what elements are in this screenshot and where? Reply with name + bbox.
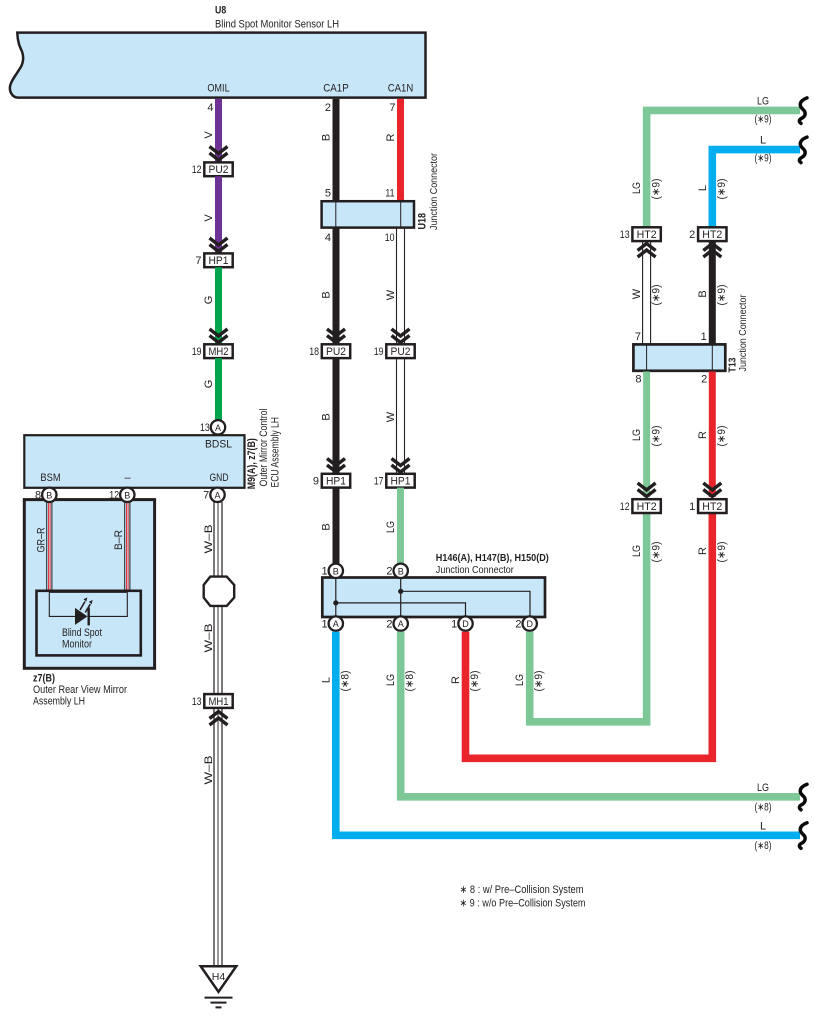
svg-text:19: 19 bbox=[192, 346, 202, 358]
pin 8 B of ECU bbox=[42, 488, 56, 502]
svg-text:LG: LG bbox=[631, 429, 643, 441]
arrow on wire B bbox=[327, 465, 345, 472]
svg-text:4: 4 bbox=[207, 102, 213, 114]
svg-text:L: L bbox=[697, 185, 709, 191]
svg-text:LG: LG bbox=[757, 96, 769, 108]
block z7 Outer Rear View Mirror Assembly LH bbox=[24, 500, 154, 669]
svg-text:BDSL: BDSL bbox=[205, 439, 232, 451]
svg-text:A: A bbox=[398, 619, 404, 629]
svg-text:R: R bbox=[697, 547, 709, 555]
svg-text:A: A bbox=[215, 423, 221, 433]
svg-text:(∗9): (∗9) bbox=[469, 671, 481, 692]
svg-text:18: 18 bbox=[309, 346, 319, 358]
svg-text:B: B bbox=[321, 413, 333, 420]
wire LG from pin 2 A to right edge bbox=[401, 632, 800, 797]
svg-text:OMIL: OMIL bbox=[207, 83, 229, 95]
pin 2 A of H146 bbox=[394, 616, 408, 630]
connector 17 HP1 bbox=[386, 474, 414, 488]
wire W-B from octagon to MH1 bbox=[214, 606, 222, 695]
svg-text:(∗9): (∗9) bbox=[650, 179, 662, 200]
connector 18 PU2 bbox=[322, 344, 350, 358]
svg-text:Assembly LH: Assembly LH bbox=[33, 695, 85, 707]
wire B from PU2 to HP1 bbox=[333, 358, 340, 474]
wire LG from HP1 to junction pin 2 B bbox=[397, 488, 404, 564]
svg-text:W–B: W–B bbox=[203, 624, 215, 653]
svg-text:(∗8): (∗8) bbox=[339, 671, 351, 692]
svg-text:CA1P: CA1P bbox=[323, 83, 349, 95]
svg-text:GR–R: GR–R bbox=[35, 527, 47, 552]
svg-text:R: R bbox=[697, 431, 709, 439]
svg-text:R: R bbox=[450, 676, 462, 684]
svg-text:(∗9): (∗9) bbox=[650, 426, 662, 447]
wire LG from T13 to 12 HT2 bbox=[643, 372, 650, 498]
block U8 Blind Spot Monitor Sensor LH bbox=[10, 33, 426, 98]
page continuation curl LG bbox=[799, 784, 807, 810]
svg-text:D: D bbox=[462, 619, 469, 629]
svg-text:7: 7 bbox=[389, 102, 395, 114]
internal wire to LED bbox=[49, 592, 127, 616]
svg-text:z7(B): z7(B) bbox=[33, 673, 55, 685]
wire W from PU2 to HP1 bbox=[397, 358, 405, 474]
svg-text:7: 7 bbox=[203, 490, 209, 502]
svg-text:A: A bbox=[214, 490, 220, 500]
arrow on wire W bbox=[392, 465, 410, 472]
svg-text:7: 7 bbox=[635, 331, 641, 343]
svg-text:W–B: W–B bbox=[203, 525, 215, 554]
svg-text:(∗9): (∗9) bbox=[650, 542, 662, 563]
svg-text:Junction Connector: Junction Connector bbox=[737, 294, 749, 371]
pin 2 B of H146 bbox=[394, 564, 408, 578]
svg-text:7: 7 bbox=[195, 255, 201, 267]
svg-text:(∗9): (∗9) bbox=[716, 542, 728, 563]
wire R from T13 to 1 HT2 bbox=[709, 372, 716, 498]
svg-text:10: 10 bbox=[385, 232, 395, 244]
arrow on wire G bbox=[210, 336, 228, 343]
connector 9 HP1 bbox=[322, 474, 350, 488]
svg-text:9: 9 bbox=[313, 476, 319, 488]
svg-text:(∗8): (∗8) bbox=[755, 840, 772, 852]
svg-text:1: 1 bbox=[321, 618, 327, 630]
arrow on wire R bbox=[703, 490, 721, 497]
svg-text:G: G bbox=[203, 296, 215, 305]
svg-text:B: B bbox=[697, 290, 709, 297]
svg-text:Junction Connector: Junction Connector bbox=[428, 153, 440, 230]
arrow on wire B bbox=[703, 244, 721, 251]
svg-text:(∗8): (∗8) bbox=[755, 802, 772, 814]
connector 1 HT2 bbox=[698, 499, 726, 513]
svg-text:(∗9): (∗9) bbox=[716, 179, 728, 200]
svg-text:HT2: HT2 bbox=[702, 501, 722, 513]
svg-text:(∗9): (∗9) bbox=[650, 285, 662, 306]
svg-text:19: 19 bbox=[374, 346, 384, 358]
svg-text:HT2: HT2 bbox=[637, 501, 657, 513]
svg-text:12: 12 bbox=[620, 501, 630, 513]
svg-text:Blind Spot: Blind Spot bbox=[62, 627, 102, 639]
svg-text:PU2: PU2 bbox=[391, 346, 411, 358]
arrow on wire LG bbox=[638, 490, 656, 497]
svg-text:4: 4 bbox=[325, 232, 331, 244]
wire W-B from MH1 to ground bbox=[214, 708, 222, 966]
svg-text:G: G bbox=[203, 380, 215, 389]
wire W-B from pin 7 A to noise filter bbox=[214, 502, 222, 577]
svg-text:1: 1 bbox=[689, 501, 695, 513]
svg-text:LG: LG bbox=[385, 521, 397, 533]
svg-text:B: B bbox=[46, 490, 52, 500]
connector 12 HT2 bbox=[632, 499, 660, 513]
pin 2 D of H146 bbox=[523, 616, 537, 630]
svg-text:HP1: HP1 bbox=[391, 476, 411, 488]
arrow on wire W bbox=[392, 336, 410, 343]
svg-text:D: D bbox=[526, 619, 533, 629]
arrow on wire W-B bbox=[210, 712, 228, 719]
svg-text:13: 13 bbox=[200, 422, 210, 434]
svg-text:2: 2 bbox=[386, 618, 392, 630]
svg-text:PU2: PU2 bbox=[209, 164, 229, 176]
svg-text:1: 1 bbox=[701, 331, 707, 343]
svg-text:2: 2 bbox=[689, 229, 695, 241]
svg-text:MH2: MH2 bbox=[209, 346, 229, 358]
connector 13 HT2 bbox=[632, 227, 660, 241]
svg-text:1: 1 bbox=[321, 566, 327, 578]
svg-text:(∗9): (∗9) bbox=[716, 285, 728, 306]
svg-text:W: W bbox=[385, 289, 397, 300]
svg-text:A: A bbox=[333, 619, 339, 629]
connector 19 PU2 bbox=[386, 344, 414, 358]
svg-text:H4: H4 bbox=[212, 971, 226, 983]
svg-text:(∗9): (∗9) bbox=[755, 153, 772, 165]
inner box Blind Spot Monitor bbox=[37, 591, 141, 656]
svg-text:∗ 8 : w/ Pre–Collision System: ∗ 8 : w/ Pre–Collision System bbox=[460, 884, 584, 896]
wire B from U8 CA1P to junction U18 bbox=[333, 99, 340, 202]
svg-text:HT2: HT2 bbox=[637, 229, 657, 241]
wire GR-R from pin 8 bbox=[47, 502, 52, 591]
svg-text:M9(A), z7(B): M9(A), z7(B) bbox=[246, 438, 258, 489]
svg-text:LG: LG bbox=[385, 674, 397, 686]
block M9 z7 Outer Mirror Control ECU Assembly LH bbox=[24, 435, 244, 488]
svg-text:R: R bbox=[385, 133, 397, 141]
svg-text:HT2: HT2 bbox=[702, 229, 722, 241]
wire R from U8 CA1N to junction U18 bbox=[397, 99, 404, 202]
ground H4 bbox=[201, 966, 237, 992]
wire V from PU2 to HP1 bbox=[215, 176, 222, 253]
svg-text:5: 5 bbox=[325, 188, 331, 200]
svg-text:BSM: BSM bbox=[40, 472, 60, 484]
svg-text:2: 2 bbox=[386, 566, 392, 578]
connector 13 MH1 bbox=[204, 694, 232, 708]
svg-text:GND: GND bbox=[210, 472, 229, 484]
arrow on wire W bbox=[638, 244, 656, 251]
svg-text:8: 8 bbox=[35, 490, 41, 502]
wire G from MH2 to pin 13 A bbox=[215, 358, 222, 421]
svg-text:L: L bbox=[321, 677, 333, 683]
svg-text:V: V bbox=[203, 131, 215, 139]
arrow on wire V bbox=[210, 245, 228, 252]
pin 13 A of ECU bbox=[211, 420, 225, 434]
wire B from HT2 to junction T13 bbox=[709, 241, 716, 345]
svg-text:11: 11 bbox=[385, 188, 394, 200]
svg-text:Blind Spot Monitor Sensor LH: Blind Spot Monitor Sensor LH bbox=[215, 19, 339, 31]
svg-text:PU2: PU2 bbox=[326, 346, 346, 358]
svg-text:B: B bbox=[124, 490, 130, 500]
arrow on wire B bbox=[327, 336, 345, 343]
svg-text:Junction Connector: Junction Connector bbox=[436, 564, 514, 576]
svg-text:–: – bbox=[124, 472, 131, 484]
wire L from pin 1 A to right edge bbox=[336, 632, 800, 836]
noise filter octagon bbox=[204, 577, 235, 606]
page continuation curl LG bbox=[799, 98, 807, 124]
svg-text:B–R: B–R bbox=[113, 530, 125, 550]
svg-text:CA1N: CA1N bbox=[388, 83, 414, 95]
junction connector U18 bbox=[322, 201, 414, 227]
svg-text:2: 2 bbox=[325, 102, 331, 114]
svg-text:13: 13 bbox=[192, 696, 202, 708]
svg-text:V: V bbox=[203, 214, 215, 222]
svg-text:L: L bbox=[760, 135, 766, 147]
wire G from HP1 to MH2 bbox=[215, 267, 222, 344]
svg-text:W: W bbox=[631, 288, 643, 299]
svg-text:12: 12 bbox=[192, 164, 202, 176]
page continuation curl L bbox=[799, 137, 807, 163]
junction connector H146 H147 H150 bbox=[322, 578, 545, 618]
pin 7 A of ECU bbox=[210, 488, 224, 502]
svg-text:13: 13 bbox=[620, 229, 630, 241]
pin 1 B of H146 bbox=[329, 564, 343, 578]
svg-text:Monitor: Monitor bbox=[62, 638, 92, 650]
svg-text:12: 12 bbox=[109, 490, 119, 502]
svg-text:U18: U18 bbox=[417, 213, 429, 230]
svg-text:B: B bbox=[321, 134, 333, 141]
pin 1 D of H146 bbox=[458, 616, 472, 630]
wire V from U8 OMIL to connector PU2 bbox=[215, 99, 222, 163]
connector 12 PU2 bbox=[204, 162, 232, 176]
wire LG from pin 2 D to connector HT2 bbox=[530, 513, 647, 722]
svg-text:8: 8 bbox=[635, 374, 641, 386]
svg-text:LG: LG bbox=[514, 674, 526, 686]
wire W from U18 to PU2 bbox=[397, 227, 405, 344]
svg-text:MH1: MH1 bbox=[209, 696, 229, 708]
svg-text:HP1: HP1 bbox=[209, 255, 229, 267]
wire LG from right edge to connector 13 HT2 bbox=[647, 110, 800, 228]
wire B from HP1 to junction pin 1 B bbox=[333, 488, 340, 564]
internal wiring of H146 bbox=[336, 578, 530, 617]
connector 19 MH2 bbox=[204, 344, 232, 358]
wire R from pin 1 D to connector HT2 bbox=[466, 513, 713, 759]
connector 7 HP1 bbox=[204, 253, 232, 267]
svg-text:LG: LG bbox=[757, 782, 769, 794]
LED diode symbol bbox=[75, 608, 88, 625]
svg-text:∗ 9 : w/o Pre–Collision System: ∗ 9 : w/o Pre–Collision System bbox=[460, 897, 586, 909]
svg-text:2: 2 bbox=[515, 618, 521, 630]
wire W from HT2 to junction T13 bbox=[643, 241, 651, 345]
svg-text:ECU Assembly LH: ECU Assembly LH bbox=[269, 417, 281, 488]
svg-text:U8: U8 bbox=[215, 5, 226, 17]
svg-text:2: 2 bbox=[701, 374, 707, 386]
svg-text:17: 17 bbox=[374, 476, 384, 488]
svg-text:1: 1 bbox=[451, 618, 457, 630]
junction connector T13 bbox=[633, 344, 725, 370]
svg-text:B: B bbox=[333, 566, 339, 576]
wire B-R from pin 12 bbox=[125, 502, 130, 591]
svg-text:LG: LG bbox=[631, 182, 643, 194]
pin 12 B of ECU bbox=[120, 488, 134, 502]
page continuation curl L bbox=[799, 823, 807, 849]
wire B from U18 to PU2 bbox=[333, 227, 340, 344]
svg-text:LG: LG bbox=[631, 545, 643, 557]
svg-text:(∗9): (∗9) bbox=[716, 426, 728, 447]
pin 1 A of H146 bbox=[329, 616, 343, 630]
svg-text:B: B bbox=[398, 566, 404, 576]
svg-text:W: W bbox=[385, 411, 397, 422]
svg-text:H146(A), H147(B), H150(D): H146(A), H147(B), H150(D) bbox=[436, 552, 549, 564]
arrow on wire V bbox=[210, 153, 228, 160]
svg-text:(∗9): (∗9) bbox=[755, 114, 772, 126]
svg-text:(∗9): (∗9) bbox=[533, 671, 545, 692]
svg-text:W–B: W–B bbox=[203, 756, 215, 785]
svg-text:HP1: HP1 bbox=[326, 476, 346, 488]
svg-text:L: L bbox=[760, 821, 766, 833]
svg-text:(∗8): (∗8) bbox=[404, 671, 416, 692]
wire L from right edge to connector 2 HT2 bbox=[712, 150, 800, 228]
svg-text:B: B bbox=[321, 291, 333, 298]
svg-text:B: B bbox=[321, 523, 333, 530]
svg-text:Outer Mirror Control: Outer Mirror Control bbox=[258, 409, 270, 487]
connector 2 HT2 bbox=[698, 227, 726, 241]
